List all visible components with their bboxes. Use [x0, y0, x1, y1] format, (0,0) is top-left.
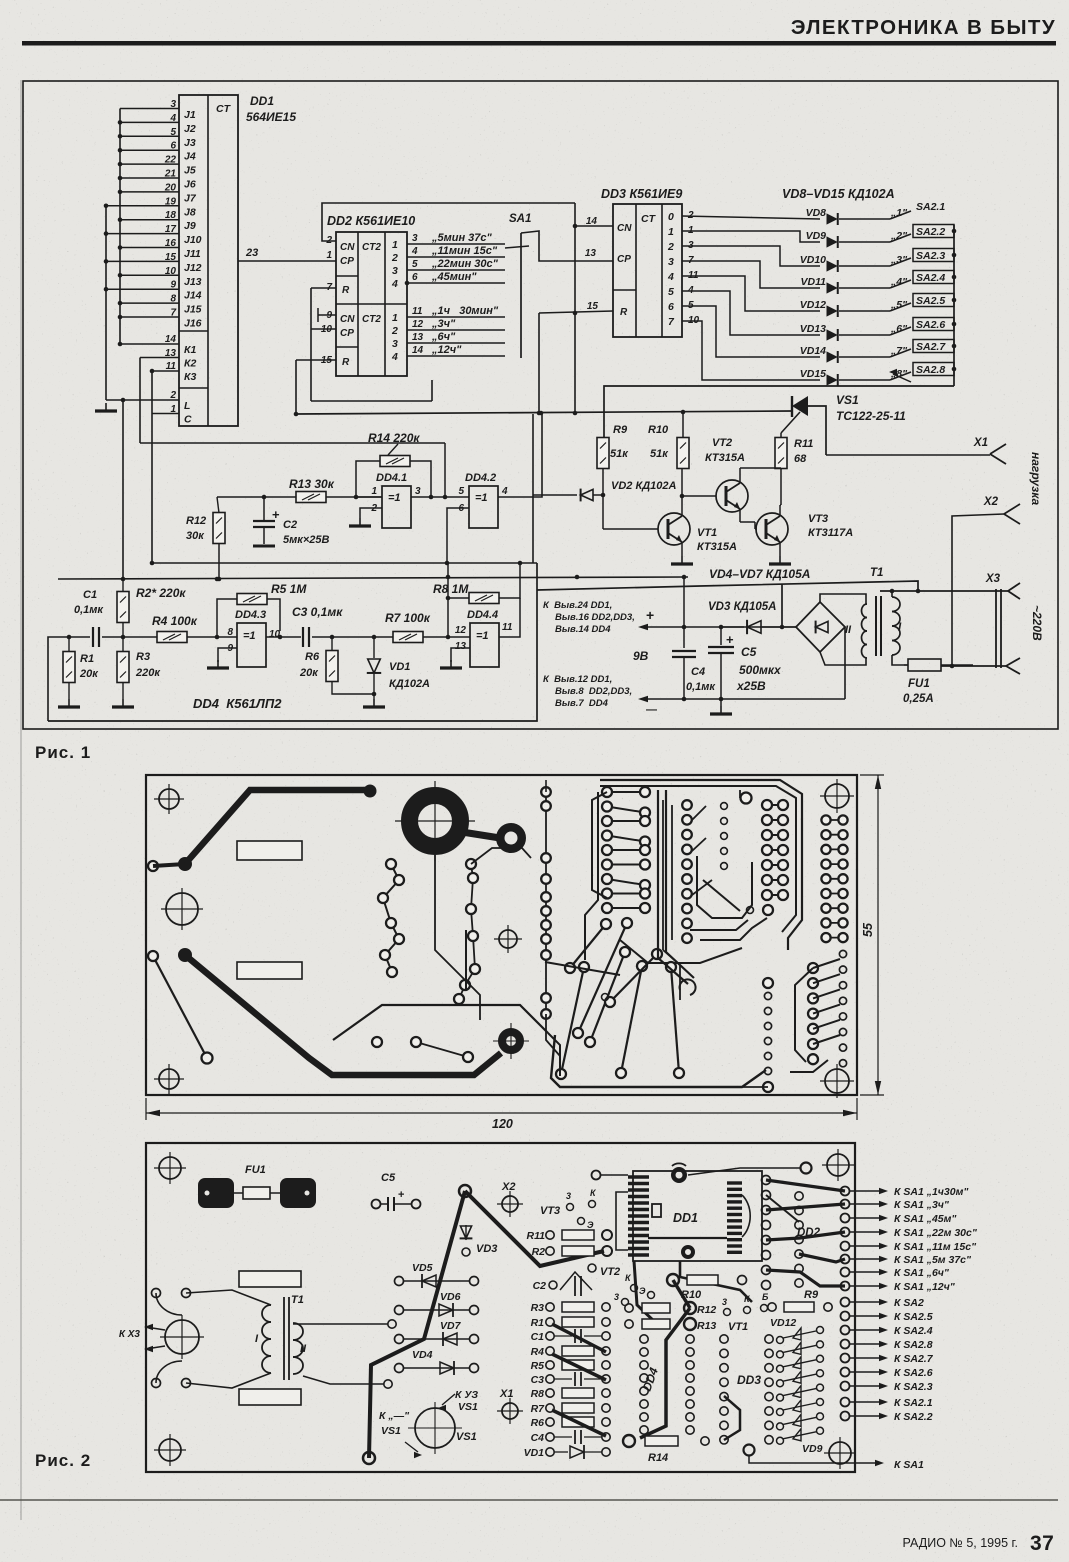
svg-text:CT2: CT2 — [362, 314, 381, 325]
power labels lower — [543, 674, 632, 709]
svg-text:12: 12 — [455, 625, 467, 636]
svg-text:VT2: VT2 — [712, 437, 732, 449]
svg-text:2: 2 — [169, 390, 176, 401]
R10 on board — [667, 1274, 747, 1308]
svg-text:SA1: SA1 — [509, 213, 531, 225]
capacitor C4 0,1мк — [672, 577, 716, 699]
svg-text:R14 220к: R14 220к — [368, 431, 420, 445]
svg-text:CT: CT — [216, 103, 232, 115]
PCB1 thin trace left — [148, 951, 213, 1064]
svg-text:=1: =1 — [243, 630, 256, 642]
svg-text:11: 11 — [166, 361, 177, 372]
К minus label — [379, 1410, 422, 1458]
svg-text:~220В: ~220В — [1030, 605, 1044, 641]
capacitor C2 5мк×25В — [253, 497, 329, 546]
DD2 output wires with time labels — [405, 232, 505, 356]
DD3 output staircase wires — [682, 210, 820, 380]
svg-text:CT: CT — [641, 213, 657, 225]
svg-text:R9: R9 — [804, 1289, 819, 1301]
svg-text:Выв.7 DD4: Выв.7 DD4 — [555, 698, 609, 709]
svg-text:нагрузка: нагрузка — [1029, 452, 1043, 506]
svg-text:ЭЛЕКТРОНИКА В БЫТУ: ЭЛЕКТРОНИКА В БЫТУ — [791, 16, 1056, 39]
thick traces DD2 to edge — [766, 1180, 845, 1286]
IC DD3 К561ИЕ9 counter — [613, 204, 682, 337]
svg-text:0: 0 — [668, 211, 674, 223]
switch section SA2.2 — [890, 225, 956, 243]
svg-text:5: 5 — [412, 259, 418, 270]
svg-text:R9: R9 — [613, 424, 628, 436]
connector X2 — [950, 496, 1020, 668]
svg-text:„6ч": „6ч" — [431, 331, 456, 343]
wire 23 from DD1 to DD2 CP — [238, 247, 336, 261]
R11 R2 rows — [527, 1230, 612, 1258]
PCB1 thick trace top-left — [148, 785, 377, 872]
svg-text:SA2.1: SA2.1 — [916, 201, 945, 213]
svg-text:C5: C5 — [741, 645, 757, 659]
PCB1 right DIP pattern — [620, 793, 788, 964]
svg-text:9В: 9В — [633, 649, 649, 663]
svg-text:К SA2.1: К SA2.1 — [894, 1397, 933, 1409]
switch section SA2.6 — [890, 318, 956, 336]
svg-text:К SA2.5: К SA2.5 — [894, 1311, 933, 1323]
svg-text:VD8–VD15 КД102А: VD8–VD15 КД102А — [782, 187, 895, 201]
svg-text:КТ315А: КТ315А — [705, 452, 745, 464]
svg-text:R6: R6 — [305, 651, 320, 663]
svg-text:4: 4 — [391, 278, 398, 290]
svg-text:1: 1 — [392, 312, 398, 324]
svg-text:FU1: FU1 — [908, 678, 930, 690]
svg-text:C3 0,1мк: C3 0,1мк — [292, 605, 343, 619]
svg-text:120: 120 — [492, 1117, 513, 1131]
resistor R12 30к — [186, 497, 225, 581]
svg-text:VT1: VT1 — [697, 527, 717, 539]
header title — [791, 16, 1056, 39]
VT2 pads — [600, 1266, 655, 1306]
svg-text:R12: R12 — [186, 515, 206, 527]
svg-text:„3ч": „3ч" — [431, 318, 456, 330]
svg-text:T1: T1 — [291, 1294, 304, 1306]
svg-text:R6: R6 — [531, 1417, 545, 1429]
svg-text:К SA1 „6ч": К SA1 „6ч" — [894, 1267, 950, 1279]
svg-text:C4: C4 — [531, 1432, 545, 1444]
svg-text:C3: C3 — [531, 1374, 545, 1386]
svg-text:5мк×25В: 5мк×25В — [283, 534, 329, 546]
svg-text:К „—": К „—" — [379, 1410, 410, 1422]
svg-text:КТ3117А: КТ3117А — [808, 527, 853, 539]
svg-text:4: 4 — [501, 486, 508, 497]
resistor R13 30к — [217, 477, 382, 503]
svg-text:0,1мк: 0,1мк — [686, 681, 716, 693]
svg-text:J1: J1 — [184, 109, 196, 121]
svg-text:+: + — [398, 1189, 404, 1201]
svg-text:16: 16 — [165, 238, 177, 249]
PCB1 mounting hole top-left — [154, 784, 184, 814]
PCB1 mid column pads — [663, 800, 692, 1000]
diode VD9 — [806, 230, 909, 248]
svg-text:FU1: FU1 — [245, 1164, 266, 1176]
svg-text:C1: C1 — [531, 1331, 545, 1343]
svg-text:Рис. 2: Рис. 2 — [35, 1451, 91, 1470]
VD12..VD9 diagonal diodes — [770, 1317, 824, 1455]
diode VD11 — [801, 276, 909, 294]
connector X3 mains — [985, 573, 1020, 674]
svg-text:VD11: VD11 — [801, 276, 827, 288]
svg-text:К Х3: К Х3 — [119, 1329, 141, 1340]
bottom common wire — [48, 563, 920, 721]
svg-text:3: 3 — [668, 256, 674, 268]
svg-text:J7: J7 — [184, 192, 197, 204]
ground R1 — [58, 699, 80, 707]
load label нагрузка — [1029, 452, 1043, 506]
resistor R11 68 — [775, 433, 813, 469]
C2 on board — [533, 1264, 596, 1296]
diode VD5 on board — [395, 1262, 479, 1288]
right edge pads with arrows — [841, 1186, 978, 1423]
wire R2 top riser — [121, 398, 126, 579]
svg-text:R: R — [342, 285, 350, 296]
svg-text:R11: R11 — [527, 1230, 546, 1242]
svg-text:23: 23 — [245, 247, 258, 259]
svg-text:КТ315А: КТ315А — [697, 541, 737, 553]
svg-text:220к: 220к — [135, 667, 161, 679]
svg-text:VS1: VS1 — [456, 1431, 477, 1443]
ground DD4.3 pin9 — [207, 660, 229, 668]
svg-text:х25В: х25В — [736, 679, 766, 693]
svg-text:CN: CN — [340, 314, 355, 325]
PCB1 medium annular pad — [462, 827, 522, 849]
resistor R10 51к — [648, 412, 689, 469]
svg-text:X3: X3 — [985, 573, 1001, 585]
gate DD4.2 — [445, 414, 542, 565]
svg-text:3: 3 — [415, 486, 421, 497]
svg-text:КД102А: КД102А — [389, 678, 430, 690]
diode VD12 — [800, 299, 908, 317]
svg-text:К Выв.24 DD1,: К Выв.24 DD1, — [543, 600, 612, 611]
svg-text:19: 19 — [165, 196, 177, 207]
DD1 input pin wires and bus — [104, 99, 179, 415]
svg-text:4: 4 — [411, 246, 418, 257]
svg-text:К3: К3 — [184, 371, 196, 383]
svg-text:VD13: VD13 — [800, 323, 826, 335]
svg-text:21: 21 — [164, 169, 177, 180]
svg-text:R: R — [342, 357, 350, 368]
svg-text:К SA2.4: К SA2.4 — [894, 1325, 933, 1337]
svg-text:DD2 К561ИЕ10: DD2 К561ИЕ10 — [327, 214, 415, 228]
9V label — [633, 649, 649, 663]
svg-text:VT3: VT3 — [540, 1205, 560, 1217]
gate DD4.3 — [217, 609, 301, 667]
diode VD7 on board — [395, 1320, 479, 1346]
svg-text:8: 8 — [170, 294, 176, 305]
svg-text:500мкх: 500мкх — [739, 663, 782, 677]
resistor R4 100к — [123, 614, 219, 643]
svg-text:К УЗ: К УЗ — [455, 1389, 478, 1401]
DD2 designation label — [327, 214, 415, 228]
svg-text:К SA1 „3ч": К SA1 „3ч" — [894, 1199, 950, 1211]
switch section SA2.8 — [890, 363, 956, 381]
X1 output wire — [826, 454, 990, 456]
svg-text:SA2.8: SA2.8 — [916, 364, 945, 376]
bottom rule — [0, 1499, 1058, 1501]
diode VD15 — [800, 368, 908, 386]
svg-text:DD1: DD1 — [673, 1211, 698, 1225]
svg-text:J6: J6 — [184, 179, 196, 191]
svg-text:SA2.2: SA2.2 — [916, 226, 945, 238]
svg-text:VD8: VD8 — [806, 207, 827, 219]
svg-text:Выв.14 DD4: Выв.14 DD4 — [555, 624, 611, 635]
DD4 socket pads — [640, 1335, 695, 1434]
dimension 120 — [146, 1098, 857, 1131]
switch section SA2.3 — [890, 249, 956, 267]
svg-text:C: C — [184, 414, 192, 426]
svg-text:SA2.4: SA2.4 — [916, 272, 945, 284]
diode group label VD8-VD15 КД102А — [782, 187, 895, 201]
svg-text:DD4.2: DD4.2 — [465, 472, 496, 484]
ground C5 — [710, 699, 732, 714]
mains top wire — [880, 589, 1008, 594]
connector X1 pad — [497, 1388, 523, 1424]
svg-text:VT1: VT1 — [728, 1321, 748, 1333]
net riser DD2-CN to DD3 — [573, 203, 578, 413]
svg-text:18: 18 — [165, 210, 177, 221]
svg-text:X1: X1 — [499, 1388, 513, 1400]
svg-text:К SA2.3: К SA2.3 — [894, 1381, 933, 1393]
svg-text:20к: 20к — [299, 667, 319, 679]
svg-text:VD10: VD10 — [800, 254, 826, 266]
VS1 pad — [408, 1402, 477, 1454]
resistor R1 20к — [63, 637, 99, 699]
svg-text:J5: J5 — [184, 165, 196, 177]
lower bus wires — [58, 563, 688, 581]
svg-text:14: 14 — [412, 345, 424, 356]
svg-text:R1: R1 — [80, 653, 94, 665]
PCB1 diagonal trace fan — [551, 918, 766, 1087]
svg-text:II: II — [845, 624, 852, 636]
PCB1 long meander traces — [333, 780, 802, 1076]
svg-text:К SA1 „11м 15с": К SA1 „11м 15с" — [894, 1241, 977, 1253]
svg-text:3: 3 — [412, 233, 418, 244]
svg-text:DD3: DD3 — [737, 1373, 761, 1387]
svg-text:VS1: VS1 — [458, 1401, 478, 1413]
svg-text:X1: X1 — [973, 437, 988, 449]
svg-text:R4: R4 — [531, 1346, 545, 1358]
transformer T1 — [820, 567, 908, 665]
diode VD2 КД102А — [533, 414, 677, 563]
svg-text:J2: J2 — [184, 123, 196, 135]
svg-text:=1: =1 — [475, 492, 488, 504]
svg-text:3: 3 — [722, 1297, 727, 1307]
svg-text:13: 13 — [165, 348, 177, 359]
svg-text:Рис. 1: Рис. 1 — [35, 743, 91, 762]
PCB1 mid vertical chain — [541, 787, 560, 1076]
svg-text:К SA2.6: К SA2.6 — [894, 1367, 933, 1379]
R14 on board — [623, 1435, 709, 1464]
ground at DD1 L pin — [95, 403, 117, 411]
DD3 designation label — [601, 187, 682, 201]
DD1 top wires — [592, 1163, 812, 1251]
switch SA1 — [505, 213, 613, 415]
thick trace VD3 net — [363, 1185, 604, 1464]
svg-text:R10: R10 — [648, 424, 669, 436]
PCB1 mid-left hole — [161, 888, 203, 930]
svg-text:R13: R13 — [697, 1320, 716, 1332]
svg-text:К SA2: К SA2 — [894, 1297, 924, 1309]
schematic outer border — [23, 81, 1058, 729]
svg-text:ТС122-25-11: ТС122-25-11 — [836, 409, 906, 423]
IC DD2 К561ИЕ10 dual counter — [336, 232, 407, 376]
svg-text:17: 17 — [165, 224, 177, 235]
PCB1 left DIP pair columns — [592, 787, 650, 913]
К УЗ label — [438, 1389, 478, 1413]
connector X1 — [973, 437, 1006, 464]
svg-text:55: 55 — [861, 922, 875, 937]
svg-text:CP: CP — [340, 256, 354, 267]
svg-text:VD3: VD3 — [476, 1243, 497, 1255]
svg-text:2: 2 — [391, 325, 398, 337]
svg-text:3: 3 — [170, 99, 176, 110]
svg-text:VD5: VD5 — [412, 1262, 433, 1274]
PCB1 small annular pad lower — [493, 1023, 529, 1059]
svg-text:VD4: VD4 — [412, 1349, 433, 1361]
bridge rectifier VD4-VD7 — [796, 602, 845, 652]
minus rail with arrow — [638, 696, 845, 716]
svg-text:15: 15 — [587, 301, 599, 312]
switch section SA2.5 — [890, 294, 956, 312]
svg-text:R2* 220к: R2* 220к — [136, 586, 186, 600]
fuse FU1 on board — [198, 1164, 316, 1208]
ground VT3 — [769, 556, 791, 564]
PCB1 mounting hole top-right — [820, 779, 854, 813]
svg-text:„5мин 37с": „5мин 37с" — [431, 232, 493, 244]
PCB2 board outline — [146, 1143, 855, 1472]
svg-text:J3: J3 — [184, 137, 196, 149]
svg-text:R3: R3 — [531, 1302, 545, 1314]
PCB2 mounting holes — [154, 1149, 856, 1469]
resistor R3 220к — [117, 637, 161, 699]
svg-text:1: 1 — [371, 486, 377, 497]
svg-text:DD4.4: DD4.4 — [467, 609, 498, 621]
svg-text:1: 1 — [326, 250, 332, 261]
dimension 55 — [860, 775, 884, 1095]
svg-text:К SA1 „45м": К SA1 „45м" — [894, 1213, 957, 1225]
svg-text:C4: C4 — [691, 666, 705, 678]
PCB1 centre-bottom pads — [372, 1037, 473, 1062]
svg-text:5: 5 — [458, 486, 464, 497]
diode VD3 on board — [460, 1225, 498, 1256]
svg-text:4: 4 — [391, 351, 398, 363]
svg-text:VD1: VD1 — [524, 1447, 545, 1459]
DD1 designation label — [246, 94, 296, 124]
svg-text:К SA2.8: К SA2.8 — [894, 1339, 933, 1351]
diode VD8 — [806, 207, 909, 225]
svg-text:Б: Б — [762, 1292, 769, 1302]
svg-text:VD15: VD15 — [800, 368, 826, 380]
svg-text:R: R — [620, 307, 628, 318]
capacitor C3 0,1мк — [292, 605, 393, 647]
svg-text:„1ч 30мин": „1ч 30мин" — [431, 305, 499, 317]
svg-text:VD7: VD7 — [440, 1320, 462, 1332]
feedback resistor R5 1М — [217, 582, 307, 637]
svg-text:CP: CP — [340, 328, 354, 339]
svg-text:1: 1 — [668, 226, 674, 238]
capacitor C1 0,1мк — [48, 589, 123, 721]
svg-text:II: II — [300, 1343, 307, 1355]
svg-text:J15: J15 — [184, 304, 202, 316]
svg-text:20: 20 — [164, 182, 177, 193]
svg-text:VD4–VD7 КД105А: VD4–VD7 КД105А — [709, 567, 810, 581]
svg-text:C2: C2 — [283, 519, 297, 531]
svg-text:SA2.6: SA2.6 — [916, 319, 945, 331]
PCB1 mounting hole bottom-left — [154, 1064, 184, 1094]
svg-text:4: 4 — [169, 113, 176, 124]
switch section SA2.4 — [890, 271, 956, 289]
ground VT1 — [671, 556, 693, 564]
svg-text:К SA2.2: К SA2.2 — [894, 1411, 933, 1423]
thick trace R12 to R14 — [640, 1308, 690, 1438]
diode VD4 on board — [395, 1349, 479, 1375]
ground DD4.1 pin2 — [349, 518, 371, 526]
svg-text:6: 6 — [668, 301, 674, 313]
svg-text:VD9: VD9 — [806, 230, 827, 242]
IC DD1 564ИЕ15 counter — [179, 95, 238, 426]
thyristor VS1 — [781, 396, 826, 455]
svg-text:DD1: DD1 — [250, 94, 274, 108]
svg-text:J12: J12 — [184, 262, 202, 274]
diode VD13 — [800, 323, 908, 341]
svg-text:+: + — [272, 507, 280, 522]
diode VD6 on board — [395, 1291, 479, 1317]
svg-text:R11: R11 — [794, 438, 813, 450]
svg-text:3: 3 — [392, 265, 398, 277]
PCB1 slot cutout lower — [237, 962, 302, 979]
svg-text:К SA1 „1ч30м": К SA1 „1ч30м" — [894, 1186, 969, 1198]
switch section SA2.7 — [890, 340, 956, 358]
DD2 upper input wires — [311, 203, 575, 293]
svg-text:R13 30к: R13 30к — [289, 477, 335, 491]
svg-text:12: 12 — [412, 319, 424, 330]
svg-text:J9: J9 — [184, 220, 196, 232]
svg-text:2: 2 — [391, 252, 398, 264]
svg-text:+: + — [726, 632, 734, 647]
svg-text:CP: CP — [617, 254, 631, 265]
svg-text:J16: J16 — [184, 318, 202, 330]
footer — [903, 1532, 1055, 1555]
К Х3 arrows — [119, 1324, 165, 1352]
header rule — [22, 41, 1056, 46]
R12 R13 on board — [625, 1302, 717, 1332]
svg-text:VS1: VS1 — [836, 393, 859, 407]
svg-text:13: 13 — [412, 332, 424, 343]
svg-text:VD2 КД102А: VD2 КД102А — [611, 480, 677, 492]
diode VD1 КД102А — [367, 637, 430, 699]
svg-text:SA2.5: SA2.5 — [916, 295, 945, 307]
PCB1 thick trace bottom-left — [178, 948, 501, 1075]
svg-text:„45мин": „45мин" — [431, 271, 477, 283]
svg-text:R8 1М: R8 1М — [433, 582, 469, 596]
svg-text:3: 3 — [614, 1292, 619, 1302]
svg-text:R5: R5 — [531, 1360, 545, 1372]
capacitor C5 on board — [372, 1172, 421, 1211]
svg-text:X2: X2 — [501, 1181, 515, 1193]
resistor R7 100к — [385, 611, 450, 643]
VT3 pads — [540, 1188, 597, 1230]
svg-text:VT3: VT3 — [808, 513, 828, 525]
DD3 input wires — [575, 216, 613, 312]
svg-text:VD1: VD1 — [389, 661, 410, 673]
bus +9V upper — [296, 410, 792, 416]
svg-text:Э: Э — [587, 1220, 594, 1230]
svg-text:CT2: CT2 — [362, 242, 381, 253]
